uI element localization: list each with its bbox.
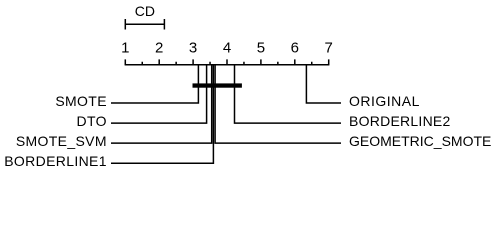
svg-text:2: 2: [155, 40, 163, 57]
svg-text:6: 6: [291, 40, 299, 57]
minor ticks: [142, 62, 312, 65]
GEOMETRIC_SMOTE line: [215, 65, 341, 143]
BORDERLINE2 line: [235, 65, 342, 123]
svg-text:BORDERLINE1: BORDERLINE1: [4, 153, 107, 169]
svg-text:CD: CD: [135, 3, 155, 19]
svg-text:DTO: DTO: [77, 113, 107, 129]
left labels: [4, 93, 107, 169]
CD bracket: [125, 19, 166, 30]
svg-text:4: 4: [223, 40, 231, 57]
svg-text:1: 1: [121, 40, 129, 57]
axis line: [125, 64, 330, 66]
svg-text:SMOTE: SMOTE: [55, 93, 107, 109]
svg-text:7: 7: [325, 40, 333, 57]
DTO line: [111, 65, 207, 123]
clique bar: [193, 83, 242, 87]
BORDERLINE1 line: [111, 65, 213, 163]
ORIGINAL line: [306, 65, 341, 103]
svg-text:SMOTE_SVM: SMOTE_SVM: [16, 133, 107, 149]
svg-text:ORIGINAL: ORIGINAL: [349, 93, 420, 109]
axis numbers: [121, 40, 333, 57]
svg-text:GEOMETRIC_SMOTE: GEOMETRIC_SMOTE: [349, 133, 491, 149]
major ticks: [125, 59, 328, 64]
svg-text:3: 3: [189, 40, 197, 57]
svg-text:5: 5: [257, 40, 265, 57]
right labels: [349, 93, 491, 149]
svg-text:BORDERLINE2: BORDERLINE2: [349, 113, 451, 129]
SMOTE line: [111, 65, 198, 103]
SMOTE_SVM line: [111, 65, 212, 143]
